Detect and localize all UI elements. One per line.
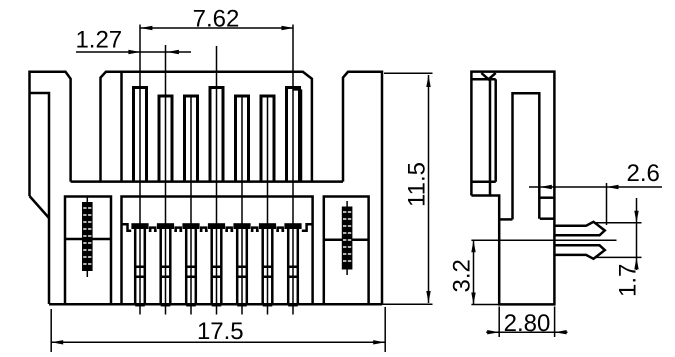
side wall chamfer V mark [481, 73, 495, 79]
contact pin2 [157, 223, 174, 305]
side cavity box right bottom [540, 217, 555, 220]
prong centerline [471, 239, 616, 241]
side wall inner vertical 2 [494, 79, 497, 181]
side wall inner step [472, 180, 495, 183]
contact seat scallop profile [122, 224, 313, 231]
svg-text:1.7: 1.7 [614, 264, 641, 297]
slot pin6 [261, 96, 274, 182]
contact pin4 [208, 223, 225, 305]
lower center section [122, 197, 313, 305]
lower left boss divider [65, 238, 111, 241]
housing outer [101, 72, 312, 182]
right column [343, 72, 382, 304]
side wall inner top line [472, 78, 495, 81]
slot pin2 [159, 96, 172, 182]
slot pin7 [287, 88, 300, 182]
upper prong [555, 222, 605, 236]
slot pin1 [134, 88, 147, 182]
contact pin3 [182, 223, 199, 305]
side wall inner vertical 1 [489, 79, 492, 195]
svg-text:2.80: 2.80 [504, 310, 551, 337]
contact pin1 [131, 223, 148, 305]
dimension 1.27 [75, 27, 191, 55]
housing step line [71, 180, 343, 183]
lower right boss hatched slot [342, 201, 353, 275]
side cavity step left [499, 218, 512, 221]
side cavity box right top [540, 196, 555, 199]
latch arm tip diagonal [30, 196, 50, 218]
dimension 7.62 [140, 6, 294, 33]
dimension 17.5 [51, 307, 385, 352]
lower right boss divider [324, 239, 369, 242]
svg-text:17.5: 17.5 [197, 318, 244, 345]
pin center lines [139, 25, 141, 315]
side cavity U groove [513, 93, 540, 219]
side body outline [471, 72, 554, 305]
lower left boss hatched slot [82, 197, 93, 278]
svg-text:11.5: 11.5 [404, 162, 431, 207]
slot pin4 [210, 88, 223, 182]
svg-text:3.2: 3.2 [448, 259, 475, 292]
lower left boss [65, 197, 111, 305]
svg-text:1.27: 1.27 [75, 27, 122, 54]
contact pin6 [259, 223, 276, 305]
dimension 2.80 [486, 307, 567, 338]
lower right boss [324, 197, 369, 305]
dimension 2.6 [529, 160, 662, 225]
slot pin3 [185, 96, 198, 182]
contact pin5 [233, 223, 250, 305]
slot pin5 [236, 96, 249, 182]
dimension 11.5 [382, 73, 433, 304]
housing inner left wall [120, 73, 123, 182]
svg-text:2.6: 2.6 [627, 160, 660, 187]
contact pin7 [284, 223, 301, 305]
latch arm inner edge [30, 93, 50, 304]
housing inner right wall [293, 89, 301, 181]
dimension 3.2 [448, 240, 499, 304]
lower prong [555, 245, 605, 258]
dimension 1.7 [596, 198, 642, 297]
latch arm outer [30, 72, 71, 196]
bottom edge [49, 303, 382, 306]
svg-text:7.62: 7.62 [193, 6, 240, 33]
